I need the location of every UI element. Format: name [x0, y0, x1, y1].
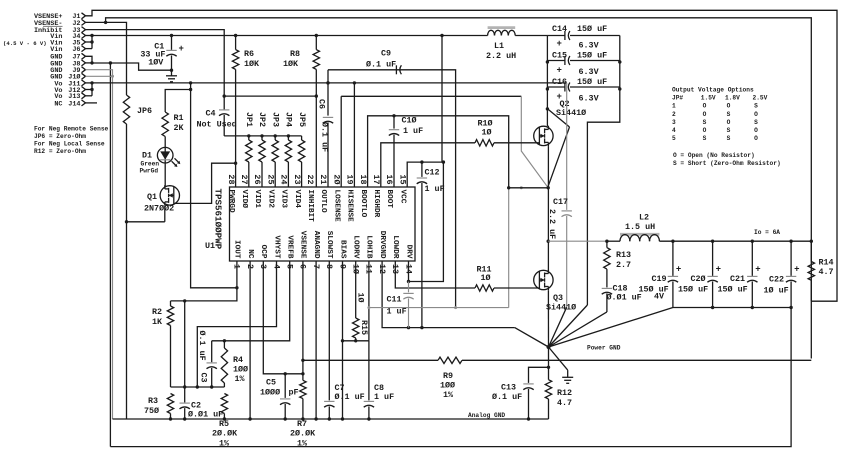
connector pin J14	[54, 100, 85, 108]
svg-text:3: 3	[672, 119, 676, 126]
svg-text:R14: R14	[819, 258, 834, 268]
svg-text:1.5V: 1.5V	[701, 95, 716, 102]
pin 1 label IOUT	[232, 240, 242, 269]
transistor Q3 Si4410	[534, 270, 576, 313]
wire PWRGD pin 28	[234, 162, 237, 188]
connector pin J9	[50, 67, 85, 75]
svg-text:JP1: JP1	[244, 112, 254, 127]
svg-text:15: 15	[397, 174, 407, 184]
svg-text:OCP: OCP	[259, 245, 267, 259]
wire switch node to BOOTLO	[507, 186, 548, 189]
resistor R1	[162, 88, 192, 137]
pin 23 label VID4	[292, 174, 302, 208]
wire diagonal caps ground to power ground	[549, 308, 673, 348]
svg-text:+: +	[794, 265, 799, 275]
node power ground star	[547, 345, 621, 352]
svg-text:75Ø: 75Ø	[144, 406, 159, 416]
svg-text:15Ø uF: 15Ø uF	[718, 285, 748, 295]
svg-text:Ø.1 uF: Ø.1 uF	[197, 331, 207, 361]
svg-text:2N7ØØ2: 2N7ØØ2	[144, 204, 174, 214]
svg-text:LODRV: LODRV	[352, 235, 360, 258]
svg-text:O: O	[703, 127, 707, 134]
svg-text:C1Ø: C1Ø	[402, 116, 417, 126]
svg-text:L2: L2	[639, 213, 649, 223]
connector pin J10	[50, 73, 85, 82]
wire LOHIB gray power line	[367, 306, 455, 309]
svg-text:15Ø uF: 15Ø uF	[577, 77, 607, 87]
capacitor C1	[140, 36, 184, 72]
svg-text:Ø.1 uF: Ø.1 uF	[366, 60, 396, 70]
resistor R5	[212, 394, 238, 449]
svg-text:R2: R2	[152, 307, 162, 317]
resistor R4	[221, 341, 248, 387]
pin 17 label HIGHDR	[371, 174, 381, 217]
svg-text:C3: C3	[199, 373, 209, 383]
svg-text:1.8V: 1.8V	[725, 95, 740, 102]
wire VCC pin 15	[407, 36, 445, 188]
pin 10 label LODRV	[351, 235, 361, 274]
label C11	[387, 295, 407, 317]
svg-text:1 uF: 1 uF	[403, 126, 423, 136]
wire OCP pin 3	[263, 261, 304, 375]
pin 25 label VID2	[265, 174, 275, 208]
svg-text:Power GND: Power GND	[587, 345, 621, 352]
label input voltage range	[3, 40, 47, 47]
pin 15 label VCC	[397, 174, 407, 203]
jumper JP4	[284, 112, 294, 187]
svg-text:6.3V: 6.3V	[579, 41, 600, 51]
pin 26 label VID1	[252, 174, 262, 208]
svg-text:4: 4	[672, 127, 676, 134]
wire Q3 source to power ground	[547, 290, 549, 347]
svg-text:4.7: 4.7	[819, 267, 834, 277]
wire output rail left segment	[547, 240, 621, 243]
svg-text:INHIBIT: INHIBIT	[306, 190, 314, 223]
pin 13 label LOWDR	[390, 235, 400, 274]
svg-text:S: S	[754, 119, 758, 126]
svg-text:R8: R8	[290, 49, 300, 59]
svg-text:LOWDR: LOWDR	[391, 235, 399, 258]
wire R11 to Q3 gate	[494, 287, 539, 289]
svg-text:1.5 uH: 1.5 uH	[625, 222, 655, 232]
svg-text:JP4: JP4	[284, 112, 294, 127]
svg-text:+: +	[676, 265, 681, 275]
wire DRVGND pin 12 to power ground line	[382, 261, 515, 329]
pin 28 label PWRGD	[226, 174, 236, 213]
wire Vin rail	[86, 34, 488, 49]
svg-text:1Ø: 1Ø	[356, 293, 366, 303]
inductor L1	[486, 28, 516, 61]
wire diagonal power ground line to star	[515, 328, 549, 347]
pin 16 label BOOT	[384, 174, 394, 208]
connector pin J6	[50, 46, 85, 54]
wire HIGHDR pin 17 to R10	[381, 143, 475, 187]
svg-text:O: O	[754, 127, 758, 134]
wire VREFB pin 5	[212, 261, 290, 342]
pin 20 label LOSENSE	[331, 174, 341, 222]
pin 18 label BOOTLO	[358, 174, 368, 217]
pin 2 label NC	[245, 249, 255, 269]
svg-text:C19: C19	[652, 274, 667, 284]
transistor Q1 2N7002	[144, 185, 180, 213]
svg-text:1ØK: 1ØK	[283, 59, 299, 69]
wire NC pin 2	[248, 261, 251, 421]
capacitor C5	[260, 374, 299, 421]
svg-text:JP6: JP6	[137, 106, 152, 116]
svg-text:C9: C9	[381, 49, 391, 59]
wire VID rail	[224, 134, 301, 137]
resistor R13	[604, 241, 631, 270]
jumper JP2	[257, 112, 267, 187]
svg-text:PwrGd: PwrGd	[140, 168, 159, 175]
note negative sense config	[34, 126, 109, 156]
wire Vo sense to divider	[191, 83, 237, 288]
svg-text:17: 17	[371, 174, 381, 184]
inductor L2	[620, 213, 659, 242]
wire power ground drop to bottom	[110, 308, 791, 447]
label Io = 6A	[754, 229, 780, 236]
svg-text:O = Open (No Resistor): O = Open (No Resistor)	[673, 152, 755, 159]
svg-text:Ø.Ø1 uF: Ø.Ø1 uF	[607, 293, 642, 303]
wire Vin node rail	[515, 36, 549, 127]
connector pin J8	[50, 60, 85, 68]
svg-text:C15: C15	[552, 51, 567, 61]
svg-text:1ØØØ: 1ØØØ	[260, 388, 280, 398]
pin 19 label HISENSE	[345, 174, 355, 222]
svg-text:O: O	[727, 103, 731, 110]
svg-text:C11: C11	[387, 295, 402, 305]
svg-text:O: O	[754, 135, 758, 142]
svg-text:Si441Ø: Si441Ø	[556, 108, 586, 118]
svg-text:S: S	[727, 135, 731, 142]
svg-text:VSENSE: VSENSE	[299, 231, 307, 259]
svg-text:C13: C13	[501, 383, 516, 393]
svg-text:Ø.1 uF: Ø.1 uF	[335, 392, 365, 402]
svg-text:24: 24	[279, 174, 289, 184]
pin 4 label VHYST	[271, 235, 281, 269]
pin 6 label VSENSE	[298, 231, 308, 269]
svg-text:Green: Green	[141, 161, 160, 168]
svg-text:2K: 2K	[174, 123, 185, 133]
svg-text:1ØØ: 1ØØ	[233, 365, 248, 375]
capacitor C22	[764, 241, 800, 307]
resistor R6	[232, 36, 260, 164]
label C7	[335, 383, 365, 402]
capacitor C18	[602, 269, 642, 312]
svg-text:1 uF: 1 uF	[425, 184, 445, 194]
svg-text:R9: R9	[443, 371, 453, 381]
svg-text:Q3: Q3	[553, 293, 563, 303]
connector pin J12	[54, 87, 85, 95]
svg-text:LOSENSE: LOSENSE	[332, 190, 340, 223]
svg-text:22: 22	[305, 174, 315, 184]
svg-text:R6: R6	[244, 49, 254, 59]
wire diagonal C17 to power ground	[549, 307, 567, 347]
svg-text:S: S	[727, 127, 731, 134]
capacitor C10	[389, 116, 423, 188]
wire Vo sense line	[92, 81, 567, 84]
capacitor C15	[547, 51, 619, 78]
connector pin J5	[50, 39, 85, 47]
svg-text:VREFB: VREFB	[286, 235, 294, 258]
svg-text:VID2: VID2	[266, 190, 274, 209]
capacitor C17	[547, 83, 572, 307]
svg-text:VIDØ: VIDØ	[240, 190, 249, 209]
wire input cap ground rail	[587, 36, 621, 306]
svg-text:JP5: JP5	[297, 112, 307, 127]
pin 7 label ANAGND	[311, 231, 321, 269]
transistor Q2 Si4410	[534, 99, 586, 146]
wire switch node to Q3 drain	[547, 188, 549, 270]
pin 9 label BIAS	[337, 240, 347, 269]
resistor R11	[475, 265, 494, 292]
connector pin J13	[54, 93, 85, 101]
jumper JP3	[270, 112, 280, 187]
svg-text:2: 2	[672, 111, 676, 118]
svg-text:1Ø: 1Ø	[481, 273, 491, 283]
wire Q1 gate to PWRGD	[174, 163, 236, 203]
wire VSENSE- branch down to JP6 and analog ground	[104, 21, 127, 419]
wire OUTLO pin 21 with C6	[317, 70, 334, 187]
wire LOWDR pin 13 to R11	[395, 261, 475, 288]
svg-text:4V: 4V	[654, 292, 665, 302]
wire ANAGND pin 7	[314, 261, 317, 421]
svg-text:C6: C6	[317, 99, 327, 109]
svg-text:pF: pF	[289, 388, 299, 398]
svg-text:JP2: JP2	[257, 112, 267, 127]
wire diagonal around Q2 lower	[548, 127, 570, 188]
resistor R3	[144, 394, 174, 421]
svg-text:15Ø uF: 15Ø uF	[577, 51, 607, 61]
svg-text:C16: C16	[552, 77, 567, 87]
svg-text:R12 = Zero-Ohm: R12 = Zero-Ohm	[34, 148, 86, 155]
capacitor C14	[547, 24, 619, 51]
wire Vo net J11 J12 J13	[86, 81, 94, 96]
wire power ground return left side	[109, 63, 111, 447]
svg-text:R3: R3	[148, 396, 158, 406]
svg-text:Analog GND: Analog GND	[468, 412, 505, 419]
jumper JP6	[123, 95, 152, 124]
svg-text:S: S	[703, 119, 707, 126]
svg-text:2Ø.ØK: 2Ø.ØK	[290, 429, 316, 439]
svg-text:C12: C12	[425, 168, 440, 178]
capacitor C3	[197, 331, 217, 388]
jumper JP5	[297, 112, 307, 187]
wire BIAS pin 9	[341, 261, 369, 421]
connector pin J11	[54, 80, 85, 88]
svg-text:OUTLO: OUTLO	[319, 190, 327, 213]
pin 12 label DRVGND	[377, 231, 387, 274]
svg-text:1ØK: 1ØK	[244, 59, 260, 69]
svg-text:4.7: 4.7	[557, 398, 572, 408]
svg-text:ANAGND: ANAGND	[312, 231, 320, 259]
svg-text:R13: R13	[616, 250, 631, 260]
svg-text:2Ø: 2Ø	[331, 174, 341, 184]
capacitor C12	[417, 162, 445, 329]
svg-text:BOOTLO: BOOTLO	[359, 190, 367, 218]
svg-text:VHYST: VHYST	[272, 235, 280, 258]
pin 21 label OUTLO	[318, 174, 328, 213]
wire output rail	[659, 240, 813, 243]
svg-text:HISENSE: HISENSE	[346, 190, 354, 223]
svg-text:Si441Ø: Si441Ø	[546, 303, 576, 313]
svg-text:L1: L1	[494, 41, 504, 51]
wire LOSENSE pin 20 to switch node	[341, 96, 548, 188]
svg-text:1Ø uF: 1Ø uF	[764, 286, 789, 296]
svg-text:1Ø: 1Ø	[482, 128, 492, 138]
pin 14 label DRV	[403, 245, 413, 274]
svg-text:SLOWST: SLOWST	[325, 231, 333, 259]
op-amp U1 TPS56100PWP body	[205, 187, 415, 261]
wire diagonal input gnd to power ground star	[549, 305, 588, 347]
svg-text:C22: C22	[769, 275, 784, 285]
wire IOUT pin 1	[171, 261, 239, 303]
connector pin J2	[34, 19, 86, 27]
svg-text:J14: J14	[68, 100, 80, 108]
capacitor C16	[547, 77, 619, 104]
label C8	[374, 383, 394, 402]
svg-text:IOUT: IOUT	[233, 240, 241, 259]
wire VREFB junction line	[171, 385, 225, 388]
svg-text:R5: R5	[219, 419, 229, 429]
svg-text:18: 18	[358, 174, 368, 184]
svg-text:O: O	[703, 111, 707, 118]
svg-text:Q1: Q1	[147, 192, 157, 202]
capacitor C19	[639, 241, 682, 307]
wire VSENSE pin 6	[301, 261, 304, 380]
ground symbol power gnd	[549, 347, 574, 383]
pin 24 label VID3	[279, 174, 289, 208]
svg-text:Ø.1 uF: Ø.1 uF	[320, 122, 330, 152]
pin 3 label OCP	[258, 245, 268, 269]
wire J14 stub	[86, 102, 98, 104]
svg-text:For Neg Remote Sense: For Neg Remote Sense	[34, 126, 109, 133]
capacitor C13	[492, 366, 550, 421]
svg-text:JP6 = Zero-Ohm: JP6 = Zero-Ohm	[34, 133, 86, 140]
wire R10 to Q2 gate	[494, 142, 539, 144]
resistor R10	[475, 119, 494, 147]
svg-text:VID3: VID3	[280, 190, 288, 209]
svg-text:Ø.Ø1 uF: Ø.Ø1 uF	[188, 410, 223, 420]
connector pin J7	[50, 53, 85, 61]
svg-text:VCC: VCC	[398, 190, 406, 204]
svg-text:25: 25	[265, 174, 275, 184]
svg-text:S: S	[703, 135, 707, 142]
svg-text:19: 19	[345, 174, 355, 184]
svg-text:27: 27	[239, 174, 249, 184]
svg-text:C14: C14	[552, 24, 567, 34]
pin 11 label LOHIB	[364, 235, 374, 274]
wire VHYST pin 4	[196, 261, 277, 389]
svg-text:C5: C5	[266, 378, 276, 388]
wire VSENSE+ net from J1 around top and right	[86, 10, 838, 301]
svg-text:VID4: VID4	[293, 190, 301, 209]
wire SLOWST pin 8 with C7	[324, 261, 334, 421]
svg-text:O: O	[727, 119, 731, 126]
wire Q1 source to ground	[125, 206, 165, 224]
svg-text:2.5V: 2.5V	[753, 95, 768, 102]
svg-text:+: +	[557, 39, 562, 49]
note output voltage options table	[672, 87, 781, 168]
svg-text:R1: R1	[174, 113, 184, 123]
svg-text:Not Used: Not Used	[197, 120, 237, 130]
jumper JP1	[244, 112, 254, 187]
svg-text:S: S	[754, 103, 758, 110]
wire inhibit net from J3	[86, 30, 318, 107]
svg-text:C4: C4	[206, 109, 216, 119]
wire Q2 source to switch node	[547, 146, 550, 189]
svg-text:C2Ø: C2Ø	[691, 274, 706, 284]
svg-text:C17: C17	[553, 197, 568, 207]
svg-text:2Ø.ØK: 2Ø.ØK	[212, 429, 238, 439]
svg-text:NC: NC	[54, 100, 62, 108]
svg-text:+: +	[716, 265, 721, 275]
svg-text:2.7: 2.7	[616, 260, 631, 270]
capacitor C2	[180, 301, 224, 421]
svg-text:Output Voltage Options: Output Voltage Options	[672, 87, 754, 94]
connector pin J1	[34, 13, 86, 21]
svg-text:1ØØ: 1ØØ	[440, 381, 455, 391]
svg-text:TPS561ØØPWP: TPS561ØØPWP	[213, 189, 224, 250]
wire diagonal around Q2 upper	[548, 109, 570, 127]
svg-text:JP3: JP3	[270, 112, 280, 127]
resistor R15 on LODRV pin 10	[353, 261, 369, 341]
svg-text:R15: R15	[359, 320, 369, 335]
wire BOOTLO pin 18	[368, 114, 523, 189]
resistor R14	[808, 241, 833, 302]
capacitor C4 not used	[197, 107, 237, 136]
svg-text:+: +	[179, 44, 184, 54]
svg-text:Io = 6A: Io = 6A	[754, 229, 780, 236]
capacitor C9	[366, 49, 401, 75]
svg-text:26: 26	[252, 174, 262, 184]
svg-text:VID1: VID1	[253, 190, 261, 209]
svg-text:Ø.1 uF: Ø.1 uF	[492, 392, 522, 402]
svg-text:5: 5	[672, 135, 676, 142]
svg-text:BOOT: BOOT	[385, 190, 393, 209]
svg-text:15Ø uF: 15Ø uF	[577, 24, 607, 34]
svg-text:1K: 1K	[152, 317, 163, 327]
svg-text:R4: R4	[233, 355, 243, 365]
diode D1 LED	[140, 137, 181, 188]
connector pin J3	[34, 26, 86, 35]
svg-text:S = Short (Zero-Ohm Resistor): S = Short (Zero-Ohm Resistor)	[673, 160, 781, 167]
resistor R12	[545, 347, 572, 419]
pin 8 label SLOWST	[324, 231, 334, 269]
resistor R8	[283, 36, 320, 188]
svg-text:23: 23	[292, 174, 302, 184]
svg-text:+: +	[557, 66, 562, 76]
wire DRV pin 14 with C11	[403, 162, 443, 328]
pin 27 label VID0	[239, 174, 249, 208]
svg-text:R7: R7	[297, 419, 307, 429]
wire GND net J7 J8 to C1	[86, 56, 172, 70]
svg-text:1%: 1%	[235, 374, 246, 384]
wire gray sense path to switch node	[454, 188, 509, 309]
svg-text:S: S	[727, 111, 731, 118]
svg-text:HIGHDR: HIGHDR	[372, 190, 380, 218]
ground symbol at C1	[166, 70, 177, 82]
svg-text:JP#: JP#	[672, 95, 683, 102]
svg-text:1 uF: 1 uF	[374, 392, 394, 402]
svg-text:1ØV: 1ØV	[148, 58, 164, 68]
svg-text:1%: 1%	[443, 390, 454, 400]
svg-text:2.2 uH: 2.2 uH	[486, 51, 516, 61]
connector pin J4	[50, 33, 85, 41]
wire diagonal C18 to power ground	[549, 312, 607, 347]
svg-text:16: 16	[384, 174, 394, 184]
wire output caps ground rail	[673, 306, 793, 309]
